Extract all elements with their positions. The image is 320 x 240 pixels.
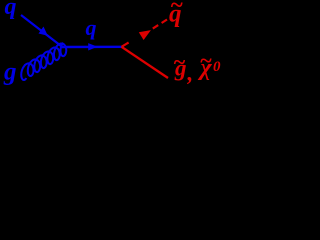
svg-text:q: q [86, 15, 97, 40]
gluon g coil [21, 43, 66, 80]
wire: squark dashed line to q-tilde [122, 20, 168, 47]
svg-text:0: 0 [213, 59, 221, 75]
wire: incoming quark line q [21, 15, 63, 48]
arrowhead on squark line [139, 30, 151, 40]
arrowhead on quark propagator [88, 43, 97, 50]
svg-text:g: g [3, 59, 17, 86]
svg-text:~: ~ [170, 0, 183, 18]
svg-text:~: ~ [173, 49, 186, 74]
arrowhead on incoming quark line [39, 27, 48, 36]
wire: gaugino solid line to g-tilde/chi0 [122, 47, 169, 78]
svg-text:q: q [5, 0, 17, 20]
svg-text:,: , [187, 61, 194, 86]
wire: quark propagator horizontal [62, 46, 124, 49]
svg-text:~: ~ [200, 48, 213, 73]
